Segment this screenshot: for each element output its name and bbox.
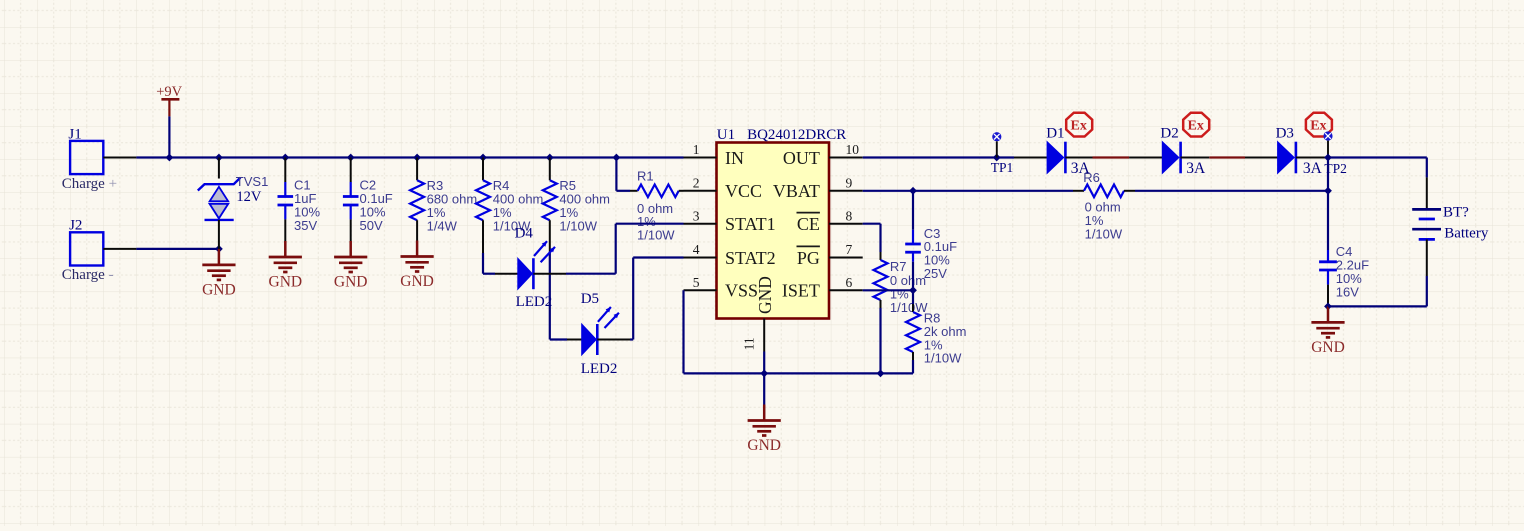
pin R5 bottom (549, 220, 551, 253)
wire TP2 down (1327, 158, 1329, 191)
junction ISET node (909, 286, 917, 294)
junction TVS (215, 154, 223, 162)
svg-text:1/10W: 1/10W (1085, 226, 1123, 241)
svg-text:1/10W: 1/10W (637, 228, 675, 243)
wire C3 top (912, 191, 914, 230)
wire D4 to corner (566, 273, 616, 275)
pin C4 bottom (1327, 285, 1329, 307)
junction C2 (347, 154, 355, 162)
svg-text:12V: 12V (236, 189, 262, 205)
no-ERC marker Ex D2 (1183, 113, 1209, 137)
wire battery top corner (1426, 158, 1428, 178)
wire VBAT (863, 190, 1073, 192)
wire C3 bottom (912, 262, 914, 291)
test point TP1 (991, 132, 1014, 175)
wire CE down to R7 (879, 224, 881, 252)
ground C2 (334, 241, 368, 291)
pin battery top (1426, 177, 1428, 208)
svg-text:+9V: +9V (156, 84, 182, 100)
tvs diode TVS1 (198, 174, 269, 220)
svg-text:3A: 3A (1186, 160, 1206, 177)
capacitor C3 (905, 226, 957, 281)
pin D5 anode (567, 339, 582, 341)
battery BT? (1412, 204, 1489, 241)
resistor R1 (637, 169, 679, 243)
wire ISET (863, 289, 913, 291)
led D5 (581, 291, 619, 377)
svg-text:6: 6 (846, 275, 853, 290)
svg-text:GND: GND (202, 281, 236, 298)
pin D1 anode (1014, 157, 1047, 159)
junction J2-TVS (215, 245, 223, 253)
junction R5 (546, 154, 554, 162)
svg-text:GND: GND (334, 274, 368, 291)
svg-text:11: 11 (742, 337, 757, 350)
svg-text:D4: D4 (515, 226, 534, 242)
wire CE right (863, 223, 881, 225)
junction TP1 (993, 154, 1001, 162)
svg-text:PG: PG (797, 248, 820, 268)
wire bottom rail (684, 372, 914, 374)
pin R6 left (1073, 190, 1084, 192)
svg-text:STAT2: STAT2 (725, 248, 776, 268)
svg-text:IN: IN (725, 148, 744, 168)
svg-text:GND: GND (755, 276, 775, 314)
pin R7 top (880, 252, 882, 260)
svg-text:D2: D2 (1160, 126, 1178, 142)
pin J2 (103, 248, 136, 250)
pin 10 OUT (783, 142, 863, 168)
svg-text:10: 10 (846, 142, 860, 157)
svg-text:VBAT: VBAT (773, 181, 820, 201)
pin R1 left (630, 190, 638, 192)
svg-text:OUT: OUT (783, 148, 820, 168)
svg-text:3: 3 (693, 208, 700, 223)
svg-text:Battery: Battery (1444, 226, 1489, 242)
connector J1 (62, 127, 117, 193)
svg-text:D3: D3 (1276, 126, 1294, 142)
svg-text:3A: 3A (1303, 160, 1323, 177)
pin 11 GND (742, 276, 776, 351)
wire battery down (1426, 276, 1428, 306)
wire R7 to rail (879, 308, 881, 373)
svg-text:25V: 25V (924, 266, 947, 281)
pin battery bottom (1426, 239, 1428, 276)
svg-text:R7: R7 (890, 259, 907, 274)
capacitor C2 (343, 178, 393, 233)
pin D3 anode (1245, 157, 1278, 159)
pin R5 top (549, 158, 551, 181)
svg-text:50V: 50V (360, 218, 383, 233)
pin 3 STAT1 (684, 208, 776, 234)
pin J1 (103, 157, 136, 159)
svg-text:R1: R1 (637, 169, 654, 184)
wire OUT to battery (1328, 156, 1427, 158)
wire down to C4 (1327, 191, 1329, 250)
junction C4 gnd (1324, 303, 1332, 311)
pin R3 bottom (416, 220, 418, 240)
no-ERC marker Ex D1 (1066, 113, 1092, 137)
resistor R3 (410, 178, 477, 233)
pin D5 cathode (597, 339, 630, 341)
pin R3 top (416, 158, 418, 181)
pin 5 VSS (684, 275, 759, 301)
pin 2 VCC (684, 175, 763, 201)
pin D1 cathode (1065, 157, 1092, 159)
diode D1 (1046, 126, 1090, 177)
wire up to STAT1 (615, 224, 617, 274)
svg-text:LED2: LED2 (516, 294, 553, 310)
svg-text:GND: GND (269, 274, 303, 291)
svg-text:7: 7 (846, 242, 853, 257)
pin D2 cathode (1181, 157, 1210, 159)
wire to R1 left (616, 190, 630, 192)
pin 7 PG (797, 242, 863, 268)
pin 1 IN (684, 142, 745, 168)
diode D2 (1160, 126, 1206, 177)
ground C4 (1311, 306, 1345, 356)
svg-text:Charge +: Charge + (62, 176, 117, 192)
junction R4 (479, 154, 487, 162)
wire up to STAT2 (632, 258, 634, 340)
pin 8 CE (797, 208, 863, 234)
pin TVS bottom (218, 220, 220, 249)
pin R8 bottom (912, 352, 914, 360)
wire D2-D3 (1209, 156, 1245, 158)
power +9V (156, 84, 182, 116)
svg-text:Ex: Ex (1188, 119, 1204, 134)
svg-text:VSS: VSS (725, 281, 758, 301)
svg-text:VCC: VCC (725, 181, 762, 201)
resistor R4 (476, 178, 543, 233)
wire to pin4 (633, 256, 683, 258)
junction C3 top (909, 187, 917, 195)
svg-text:16V: 16V (1336, 284, 1359, 299)
pin 4 STAT2 (684, 242, 776, 268)
wire branch to R1 (615, 158, 617, 191)
pin 9 VBAT (773, 175, 863, 201)
wire OUT (863, 156, 1014, 158)
svg-text:2: 2 (693, 175, 700, 190)
junction R3 (413, 154, 421, 162)
junction R7 rail (877, 370, 885, 378)
wire pin11 to rail (763, 352, 765, 374)
svg-text:J2: J2 (69, 217, 82, 233)
svg-text:BQ24012DRCR: BQ24012DRCR (747, 127, 846, 143)
svg-text:TVS1: TVS1 (236, 174, 269, 189)
svg-text:D1: D1 (1046, 126, 1064, 142)
svg-text:35V: 35V (294, 218, 317, 233)
svg-text:GND: GND (400, 273, 434, 290)
pin D2 anode (1129, 157, 1162, 159)
pin C1 bottom (284, 219, 286, 241)
pin 6 ISET (782, 275, 863, 301)
resistor R7 (874, 259, 929, 315)
pin R4 bottom (482, 220, 484, 253)
pin C2 bottom (350, 219, 352, 241)
junction TP2 OUT (1324, 154, 1332, 162)
svg-text:1: 1 (693, 142, 700, 157)
wire +9V to main net (168, 116, 170, 157)
led D4 (515, 226, 555, 310)
svg-text:1/10W: 1/10W (890, 300, 928, 315)
pin D4 cathode (533, 273, 566, 275)
wire D1-D2 (1093, 156, 1130, 158)
resistor R8 (906, 311, 966, 366)
pin R1 right (679, 190, 684, 192)
ground C1 (269, 241, 303, 291)
test point TP2 (1323, 131, 1347, 176)
junction VBAT TP2 (1324, 187, 1332, 195)
wire node to R8 (912, 290, 914, 304)
svg-text:8: 8 (846, 208, 853, 223)
resistor R6 (1083, 170, 1124, 241)
diode D3 (1276, 126, 1323, 177)
no-ERC marker Ex D3 (1306, 113, 1332, 137)
capacitor C1 (278, 178, 321, 233)
wire R8 to rail (912, 360, 914, 373)
svg-text:GND: GND (1311, 339, 1345, 356)
wire R4 to D4 (482, 253, 484, 274)
resistor R5 (543, 178, 610, 233)
svg-text:4: 4 (693, 242, 700, 257)
svg-text:LED2: LED2 (581, 361, 618, 377)
pin R6 right (1124, 190, 1135, 192)
pin D3 cathode (1296, 157, 1328, 159)
svg-text:Ex: Ex (1310, 119, 1326, 134)
junction C1 (281, 154, 289, 162)
ground U1 (747, 405, 781, 455)
pin D4 anode (495, 273, 518, 275)
wire R5 to D5 (549, 253, 551, 340)
pin R8 top (912, 304, 914, 312)
svg-text:BT?: BT? (1443, 204, 1469, 220)
svg-text:ISET: ISET (782, 281, 820, 301)
wire VSS down (682, 290, 684, 373)
wire rail to ground (763, 373, 765, 404)
svg-text:J1: J1 (68, 127, 81, 143)
svg-text:U1: U1 (717, 127, 735, 143)
pin C2 top (350, 158, 352, 183)
pin R4 top (482, 158, 484, 181)
svg-text:STAT1: STAT1 (725, 214, 776, 234)
svg-text:Ex: Ex (1071, 119, 1087, 134)
wire battery to C4 gnd (1328, 305, 1427, 307)
svg-text:1/10W: 1/10W (924, 351, 962, 366)
wire D5 to corner (630, 338, 633, 340)
junction R1 branch (613, 154, 621, 162)
wire J2 to TVS (136, 248, 219, 250)
junction pin11 rail (760, 370, 768, 378)
wire R4 corner to D4 anode (483, 273, 495, 275)
pin R7 bottom (880, 300, 882, 308)
ground TVS (202, 249, 236, 299)
wire R5 corner to D5 anode (550, 338, 567, 340)
pin C1 top (284, 158, 286, 183)
svg-text:5: 5 (693, 275, 700, 290)
svg-text:GND: GND (747, 437, 781, 454)
svg-text:TP1: TP1 (991, 160, 1014, 175)
svg-text:D5: D5 (581, 291, 599, 307)
svg-text:9: 9 (846, 175, 853, 190)
svg-text:3A: 3A (1071, 160, 1091, 177)
wire to pin3 (616, 223, 684, 225)
connector J2 (62, 217, 114, 283)
ground R3 (400, 241, 434, 291)
svg-text:1/10W: 1/10W (559, 218, 597, 233)
wire main IN net (136, 156, 683, 158)
svg-text:CE: CE (797, 214, 820, 234)
capacitor C4 (1319, 244, 1369, 299)
junction +9V (166, 154, 174, 162)
svg-text:Charge -: Charge - (62, 267, 114, 283)
wire VBAT right (1135, 190, 1328, 192)
pin TVS top (218, 158, 220, 179)
svg-text:1/4W: 1/4W (427, 218, 458, 233)
op-amp U1 body BQ24012DRCR (717, 127, 847, 318)
